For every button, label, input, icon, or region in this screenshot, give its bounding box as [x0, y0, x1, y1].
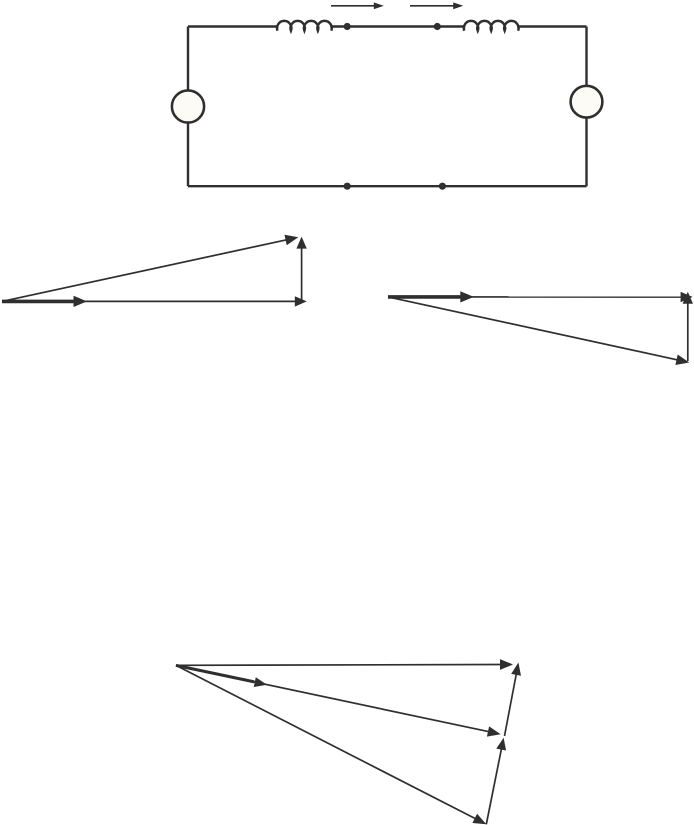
- wire: bottom conductor: [188, 185, 587, 187]
- current arrow I1 (above L1): [331, 5, 375, 7]
- wire: top-right segment: [517, 25, 587, 27]
- wire: right branch of loop: [585, 27, 587, 187]
- phasor VC (diagram 2 vertical): [687, 303, 689, 362]
- phasor V3 (diagram 3 lower): [176, 665, 476, 818]
- phasor VL (diagram 1 vertical): [301, 248, 303, 302]
- phasor V2 (diagram 3 middle): [176, 665, 489, 731]
- ac source V1 (left): [172, 90, 204, 122]
- phasor VLb (diagram 3 upper connector): [505, 674, 517, 736]
- node a (junction dot, top left): [344, 23, 351, 30]
- phasor I (diagram 2 current, thick): [388, 295, 463, 299]
- inductor L1: [277, 21, 332, 31]
- current arrow I2 (above L2): [410, 5, 455, 7]
- wire: segment between L1 and L2: [330, 25, 465, 27]
- wire: left branch of loop: [187, 27, 189, 187]
- node c (junction dot, bottom left): [344, 183, 351, 190]
- phasor V1 (diagram 3 horizontal): [176, 664, 501, 667]
- phasor I (diagram 3 current, thick): [176, 665, 254, 682]
- wire: top-left segment: [188, 25, 279, 27]
- inductor L2: [464, 21, 519, 31]
- phasor I (diagram 1 current, thick): [2, 300, 76, 304]
- phasor V1 (diagram 1 hypotenuse): [2, 240, 287, 302]
- phasor V1 (diagram 2 horizontal): [388, 296, 682, 298]
- node d (junction dot, bottom right): [439, 183, 446, 190]
- ac source V2 (right): [571, 86, 603, 118]
- phasor V (diagram 2 hypotenuse, lagging): [388, 297, 678, 360]
- node b (junction dot, top right): [434, 23, 441, 30]
- phasor V (diagram 1 horizontal resultant): [2, 300, 296, 302]
- phasor VLa (diagram 3 lower connector): [486, 749, 501, 824]
